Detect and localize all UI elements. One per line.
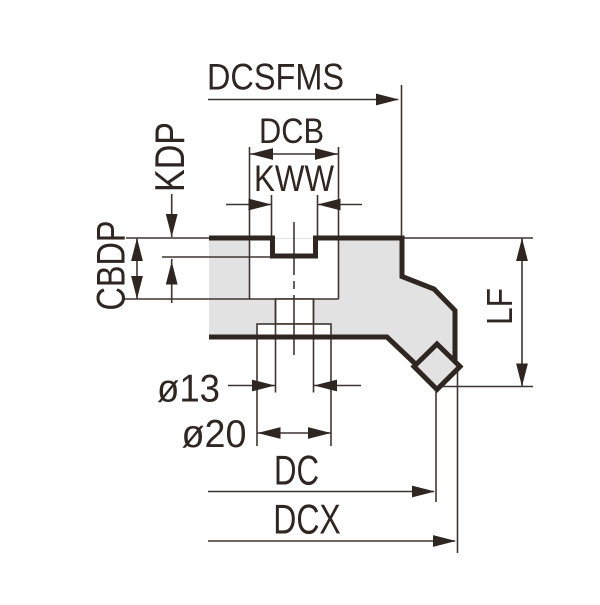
DCX extension line [457, 368, 459, 553]
cutter body section fill [209, 238, 455, 366]
svg-text:DCSFMS: DCSFMS [207, 57, 344, 98]
ø20 extension line left [256, 338, 258, 446]
counterbore DCB pocket [250, 239, 339, 299]
KDP dimension line lower [171, 259, 173, 303]
ø13 dimension line right [314, 385, 361, 387]
ø13 dimension line left [228, 385, 275, 387]
ø20 dimension line [258, 432, 332, 434]
DCB arrow right [315, 148, 338, 160]
svg-text:DCX: DCX [273, 496, 341, 543]
body outline top with keyway notch and right profile [209, 238, 455, 362]
DCB dimension line [250, 153, 338, 155]
DCX dimension line [208, 540, 455, 542]
DCB extension line right [338, 147, 340, 299]
KDP dimension line upper [171, 194, 173, 237]
CBDP arrow up [131, 238, 143, 261]
ø13 extension line right [313, 300, 315, 393]
KDP arrow up [166, 262, 178, 285]
flange boss ø20 [257, 324, 331, 337]
ø20 arrow right [308, 427, 331, 439]
CBDP dimension line [136, 238, 138, 299]
LF arrow down [516, 364, 528, 387]
keyway bottom extension line [162, 256, 272, 258]
LF dimension line [521, 238, 523, 387]
DCX arrow [433, 535, 456, 547]
counterbore bottom extension line [123, 298, 250, 300]
DC arrow [412, 486, 435, 498]
screw hole bore ø13 [276, 299, 314, 324]
KWW dimension line left tail [226, 204, 272, 206]
arrowheads [131, 94, 528, 547]
svg-text:KDP: KDP [146, 122, 193, 192]
extension lines (thin) [123, 85, 533, 553]
centerline [293, 222, 295, 355]
DC dimension line [208, 491, 434, 493]
counterbore bottom edge [250, 298, 339, 300]
svg-text:DCB: DCB [259, 112, 324, 151]
KWW arrow left [249, 199, 272, 211]
KWW dimension line right tail [318, 204, 363, 206]
LF arrow up [516, 238, 528, 261]
svg-text:LF: LF [479, 288, 520, 325]
svg-text:DC: DC [274, 447, 319, 494]
ø20 arrow left [258, 427, 281, 439]
svg-text:KWW: KWW [254, 158, 334, 199]
DCSFMS dimension line [208, 99, 398, 101]
DCSFMS extension line [401, 85, 403, 237]
body outline bottom edge [209, 337, 416, 365]
svg-text:CBDP: CBDP [90, 221, 134, 311]
svg-text:ø20: ø20 [182, 413, 247, 456]
ø13 extension line left [275, 300, 277, 393]
CBDP arrow down [131, 276, 143, 299]
LF bottom extension line [442, 386, 533, 388]
KDP arrow down [166, 214, 178, 237]
LF top extension line [404, 237, 533, 239]
DCB extension line left [249, 147, 251, 299]
DCB arrow left [250, 148, 273, 160]
ø20 extension line right [330, 338, 332, 446]
insert (diamond) [414, 344, 460, 390]
ø13 arrow right [314, 380, 337, 392]
ø13 arrow left [252, 380, 275, 392]
DCSFMS arrow [376, 94, 399, 106]
svg-text:ø13: ø13 [157, 368, 220, 411]
KWW extension line left [271, 195, 273, 237]
KWW extension line right [317, 195, 319, 237]
DC extension line [435, 392, 437, 503]
top face extension line [126, 237, 209, 239]
KWW arrow right [318, 199, 341, 211]
